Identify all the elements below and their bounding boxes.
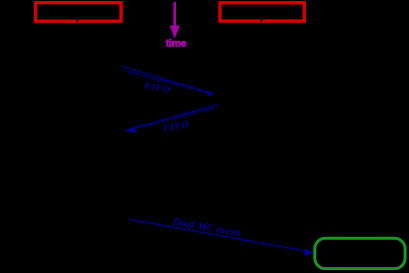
svg-text:time: time <box>166 38 187 50</box>
